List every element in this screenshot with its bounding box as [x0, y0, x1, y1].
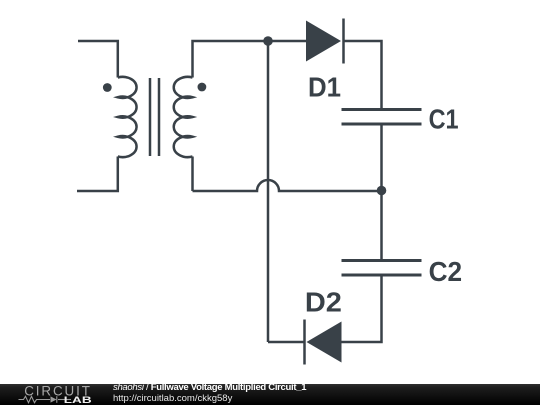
transformer T1 secondary winding — [174, 77, 193, 157]
diode D2 triangle — [307, 322, 342, 363]
wire node to C2 — [380, 191, 383, 261]
wire primary top — [78, 41, 118, 78]
diode D1 cathode bar — [342, 19, 345, 64]
node A junction dot (top, x=268 y=41) — [263, 36, 273, 46]
wire vertical crossing — [267, 41, 270, 342]
wire D2 cathode left — [268, 341, 305, 344]
wire D1 cathode to C1 — [344, 41, 382, 110]
svg-text:LAB: LAB — [64, 395, 92, 405]
transformer T1 primary phase dot — [103, 83, 112, 92]
wire primary bottom — [77, 157, 118, 192]
transformer T1 secondary phase dot — [198, 83, 207, 92]
capacitor C1 — [342, 110, 422, 125]
diode D1 triangle — [306, 21, 341, 62]
svg-text:C1: C1 — [429, 104, 459, 135]
wire C1 to node — [380, 124, 383, 191]
wire secondary bottom — [191, 157, 194, 192]
capacitor C2 — [342, 261, 422, 276]
diode D2 cathode bar — [303, 320, 306, 365]
svg-text:D2: D2 — [305, 287, 342, 318]
footer bar — [0, 384, 540, 405]
transformer T1 primary winding — [118, 77, 137, 157]
CircuitLab logo — [15, 384, 115, 405]
node B junction dot (right, x=381.5 y=190.5) — [377, 186, 387, 196]
wire C2 to D2 — [342, 275, 382, 342]
svg-text:C2: C2 — [429, 256, 463, 287]
wire secondary top — [193, 41, 307, 78]
svg-text:D1: D1 — [308, 72, 341, 103]
transformer T1 core — [150, 78, 159, 156]
wire middle horizontal with crossover hop — [193, 180, 382, 191]
